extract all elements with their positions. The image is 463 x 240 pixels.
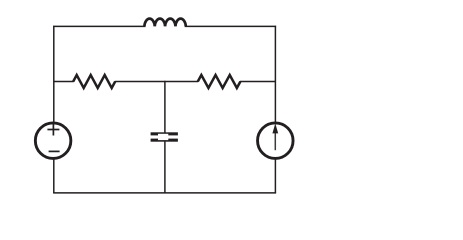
wire: bottom edge xyxy=(53,192,276,194)
wire: left vertical branch xyxy=(53,26,55,193)
wire: top edge right segment xyxy=(185,25,276,27)
wire: middle wire right lead xyxy=(240,81,275,83)
capacitor C1 xyxy=(151,132,178,141)
voltage source V1 xyxy=(35,123,71,159)
wire: middle wire left lead xyxy=(54,81,74,83)
wire: right vertical branch xyxy=(274,26,276,193)
inductor L1 xyxy=(144,19,185,27)
current source I1 xyxy=(258,123,294,159)
wire: top edge left segment xyxy=(53,25,145,27)
wire: center branch lower segment xyxy=(164,140,166,193)
wire: center branch upper segment xyxy=(164,81,166,134)
resistor R2 xyxy=(198,75,241,88)
resistor R1 xyxy=(73,75,115,88)
wire: middle wire center segment xyxy=(115,81,198,83)
